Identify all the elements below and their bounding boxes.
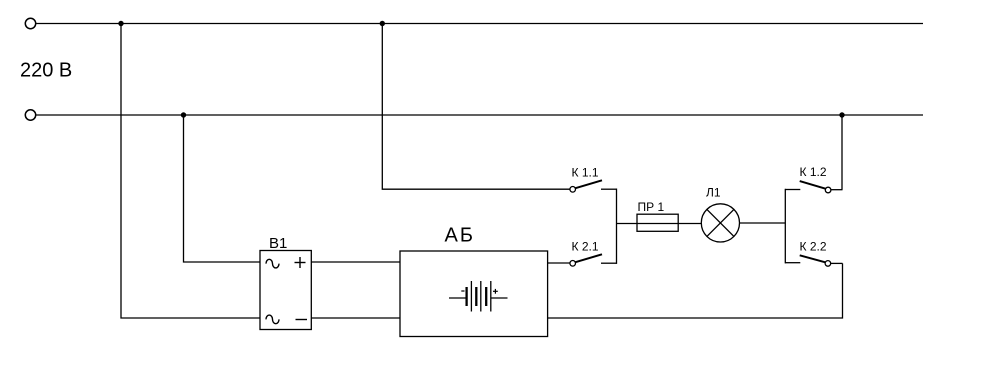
junction dot on bottom rail at x=183.5 <box>181 112 186 117</box>
svg-text:АБ: АБ <box>445 225 475 247</box>
wire from top rail down to B1 lower input <box>121 24 260 319</box>
junction dot on top rail at x=382 <box>380 21 385 26</box>
switch K1.1 <box>570 180 617 192</box>
battery GB symbol inside АБ <box>449 281 508 312</box>
wire battery box minus to bottom long rail <box>548 263 843 318</box>
B1 pin sine symbol lower <box>266 315 279 324</box>
svg-text:В1: В1 <box>269 235 287 252</box>
wire B1 minus output to battery box <box>311 317 400 319</box>
B1 pin minus sign <box>296 319 308 321</box>
wire joining K1.2 and K2.2 fixed contacts <box>784 189 786 264</box>
wire fuse to lamp <box>678 223 701 225</box>
terminal X2 (220V bottom input circle) <box>25 110 35 120</box>
wire bottom 220V rail <box>36 114 923 116</box>
wire from bottom rail down to B1 upper input <box>184 115 261 262</box>
svg-text:ПР 1: ПР 1 <box>638 200 665 214</box>
fuse ПР1 <box>637 214 678 231</box>
svg-text:К 1.1: К 1.1 <box>572 166 599 180</box>
wire top 220V rail <box>36 23 923 25</box>
wire lamp to right switch column <box>740 222 786 224</box>
terminal X1 (220V top input circle) <box>25 18 35 28</box>
junction dot on bottom rail at x=842 <box>839 112 844 117</box>
switch K1.2 <box>785 181 842 193</box>
svg-text:220 В: 220 В <box>20 60 72 82</box>
rectifier B1 box <box>260 251 311 330</box>
wire B1 plus output to battery box <box>311 261 400 263</box>
switch K2.2 <box>785 255 842 266</box>
wire top rail junction down to K1.2 <box>841 115 843 190</box>
svg-text:Л1: Л1 <box>706 186 721 200</box>
lamp Л1 <box>701 204 739 242</box>
svg-text:К 2.2: К 2.2 <box>800 240 827 254</box>
battery АБ box <box>400 251 548 337</box>
svg-text:К 2.1: К 2.1 <box>572 240 599 254</box>
wire from top rail down to switch K1.1 <box>382 24 570 190</box>
junction dot on top rail at x=121 <box>118 21 123 26</box>
switch K2.1 <box>570 254 617 266</box>
B1 pin sine symbol upper <box>266 259 279 268</box>
wire from switch join to fuse <box>617 223 638 225</box>
wire battery box to switch K2.1 <box>548 262 570 264</box>
svg-text:К 1.2: К 1.2 <box>800 165 827 179</box>
B1 pin plus sign <box>295 257 306 268</box>
wire joining K1.1 and K2.1 fixed contacts <box>616 189 618 264</box>
